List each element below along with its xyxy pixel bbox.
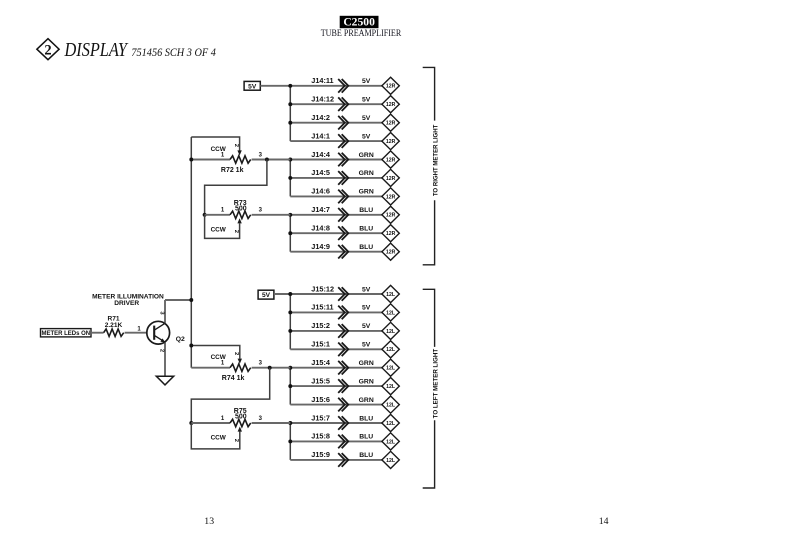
R73 wiper arrow bbox=[237, 218, 241, 223]
potentiometer R72 bbox=[230, 156, 251, 163]
off-page flag 12L (J15:6) bbox=[382, 396, 399, 413]
svg-text:J15:7: J15:7 bbox=[311, 413, 330, 422]
svg-text:GRN: GRN bbox=[359, 397, 374, 404]
svg-text:GRN: GRN bbox=[359, 170, 374, 177]
off-page flag 12L (J15:12) bbox=[382, 285, 399, 302]
svg-text:14: 14 bbox=[599, 516, 609, 527]
wire row J14:9 bbox=[290, 251, 382, 253]
svg-text:J14:12: J14:12 bbox=[311, 95, 334, 104]
svg-text:J15:2: J15:2 bbox=[311, 321, 330, 330]
off-page flag 12L (J15:9) bbox=[382, 451, 399, 468]
svg-text:Q2: Q2 bbox=[176, 336, 185, 343]
potentiometer R73 wiper loop bbox=[205, 215, 240, 239]
off-page chevron J14:6 bbox=[338, 190, 348, 204]
R72 wiper arrow bbox=[237, 150, 241, 155]
bus J15 BLU group bbox=[289, 423, 291, 460]
svg-text:500: 500 bbox=[235, 414, 247, 421]
off-page flag 12L (J15:7) bbox=[382, 414, 399, 431]
off-page flag 12R (J14:1) bbox=[382, 133, 399, 150]
svg-text:J14:9: J14:9 bbox=[311, 242, 330, 251]
junction node J15:12 bbox=[288, 292, 292, 296]
svg-text:TO RIGHT METER LIGHT: TO RIGHT METER LIGHT bbox=[432, 125, 439, 197]
svg-text:R72 1k: R72 1k bbox=[221, 167, 244, 174]
svg-text:12R: 12R bbox=[386, 139, 396, 145]
potentiometer R72 wiper loop bbox=[191, 137, 239, 151]
bus J15 GRN group bbox=[289, 368, 291, 405]
svg-text:BLU: BLU bbox=[359, 226, 373, 233]
off-page flag 12L (J15:4) bbox=[382, 359, 399, 376]
svg-text:5V: 5V bbox=[262, 292, 271, 299]
wire row J14:5 bbox=[290, 177, 382, 179]
off-page flag 12R (J14:2) bbox=[382, 114, 399, 131]
svg-text:J14:5: J14:5 bbox=[311, 168, 330, 177]
wire row J15:12 bbox=[290, 293, 382, 295]
junction node J15:4 bbox=[288, 366, 292, 370]
svg-text:J14:2: J14:2 bbox=[311, 113, 330, 122]
wire R72 pin 3 to R73 pin 1 bbox=[205, 160, 267, 215]
resistor R71 bbox=[104, 329, 124, 336]
svg-text:12L: 12L bbox=[386, 403, 396, 409]
wire R72 pin 1 wire bbox=[191, 159, 230, 161]
off-page flag 12L (J15:11) bbox=[382, 304, 399, 321]
wire R73 pin 3 wire bbox=[252, 214, 291, 216]
wire 5V box to J14 bus bbox=[260, 85, 290, 87]
wire Q2 collector up bbox=[164, 300, 166, 323]
svg-text:J14:4: J14:4 bbox=[311, 150, 331, 159]
junction node J15:8 bbox=[288, 439, 292, 443]
svg-text:12L: 12L bbox=[386, 421, 396, 427]
wire R74 pin 3 wire bbox=[252, 367, 291, 369]
svg-text:2: 2 bbox=[233, 230, 239, 233]
svg-text:J14:7: J14:7 bbox=[311, 205, 330, 214]
ground bbox=[156, 376, 173, 385]
junction node collector / bus bbox=[189, 298, 193, 302]
R75 wiper arrow bbox=[238, 427, 242, 432]
svg-text:12L: 12L bbox=[386, 439, 396, 445]
off-page flag 12L (J15:2) bbox=[382, 322, 399, 339]
svg-text:CCW: CCW bbox=[211, 227, 227, 234]
off-page flag 12L (J15:1) bbox=[382, 341, 399, 358]
svg-text:751456 SCH 3 OF 4: 751456 SCH 3 OF 4 bbox=[131, 47, 216, 59]
junction node J14:2 bbox=[288, 121, 292, 125]
off-page chevron J14:12 bbox=[338, 97, 348, 111]
junction node J14:5 bbox=[288, 176, 292, 180]
off-page flag 12R (J14:4) bbox=[382, 151, 399, 168]
off-page flag 12R (J14:12) bbox=[382, 96, 399, 113]
wire row J14:8 bbox=[290, 232, 382, 234]
svg-text:12R: 12R bbox=[386, 231, 396, 237]
svg-text:2.21K: 2.21K bbox=[105, 322, 123, 329]
junction node R74 pin 3 / R75 feed bbox=[268, 366, 272, 370]
svg-text:12R: 12R bbox=[386, 102, 396, 108]
junction node R74 wiper / bus bbox=[189, 344, 193, 348]
svg-text:12R: 12R bbox=[386, 157, 396, 163]
wire row J14:6 bbox=[290, 195, 382, 197]
junction node J14:8 bbox=[288, 231, 292, 235]
svg-text:J15:1: J15:1 bbox=[311, 340, 330, 349]
wire row J14:4 bbox=[290, 159, 382, 161]
wire row J15:8 bbox=[290, 440, 382, 442]
svg-text:GRN: GRN bbox=[359, 152, 374, 159]
svg-text:2: 2 bbox=[44, 42, 51, 58]
off-page chevron J15:12 bbox=[338, 287, 348, 301]
power source 5V box (right group) bbox=[244, 81, 260, 90]
bus J14 GRN group bbox=[289, 160, 291, 197]
junction node R72 pin 1 / bus bbox=[189, 158, 193, 162]
junction node J15:5 bbox=[288, 384, 292, 388]
svg-text:12R: 12R bbox=[386, 194, 396, 200]
junction node J15:7 bbox=[288, 421, 292, 425]
svg-text:J15:8: J15:8 bbox=[311, 432, 330, 441]
wire left bus (collector node) bbox=[190, 137, 192, 368]
wire row J15:1 bbox=[290, 348, 382, 350]
svg-text:J15:11: J15:11 bbox=[311, 303, 333, 312]
junction node J14:11 bbox=[288, 84, 292, 88]
svg-text:TUBE PREAMPLIFIER: TUBE PREAMPLIFIER bbox=[321, 28, 402, 39]
svg-text:5V: 5V bbox=[362, 78, 371, 85]
svg-text:12R: 12R bbox=[386, 176, 396, 182]
svg-text:5V: 5V bbox=[362, 305, 371, 312]
potentiometer R74 bbox=[230, 364, 251, 371]
svg-text:METER LEDs ON: METER LEDs ON bbox=[41, 331, 90, 337]
svg-text:12L: 12L bbox=[386, 384, 396, 390]
bus J14 5V group bbox=[289, 86, 291, 141]
wire R74 pin 1 wire bbox=[191, 367, 230, 369]
potentiometer R74 wiper loop bbox=[191, 346, 240, 359]
svg-text:12L: 12L bbox=[386, 310, 396, 316]
bracket TO RIGHT METER LIGHT bbox=[423, 67, 440, 264]
svg-text:5V: 5V bbox=[362, 286, 371, 293]
label METER ILLUMINATION DRIVER bbox=[92, 293, 164, 307]
svg-text:BLU: BLU bbox=[359, 434, 373, 441]
svg-text:GRN: GRN bbox=[359, 189, 374, 196]
wire row J14:7 bbox=[290, 214, 382, 216]
wire row J14:11 bbox=[290, 85, 382, 87]
svg-text:CCW: CCW bbox=[211, 146, 227, 153]
svg-text:J14:6: J14:6 bbox=[311, 187, 330, 196]
svg-text:TO LEFT METER LIGHT: TO LEFT METER LIGHT bbox=[432, 349, 439, 419]
svg-text:J14:1: J14:1 bbox=[311, 131, 330, 140]
svg-text:12L: 12L bbox=[386, 458, 396, 464]
svg-text:13: 13 bbox=[204, 516, 214, 527]
svg-text:DISPLAY: DISPLAY bbox=[64, 40, 129, 61]
junction node J14:4 bbox=[288, 158, 292, 162]
svg-text:12R: 12R bbox=[386, 250, 396, 256]
wire R75 pin 1 wire bbox=[191, 422, 230, 424]
wire 5V box to J15 bus bbox=[274, 293, 290, 295]
off-page chevron J14:8 bbox=[338, 226, 348, 240]
off-page chevron J14:11 bbox=[338, 79, 348, 93]
svg-text:12L: 12L bbox=[386, 366, 396, 372]
off-page chevron J15:11 bbox=[338, 306, 348, 320]
off-page chevron J15:2 bbox=[338, 324, 348, 338]
svg-text:12L: 12L bbox=[386, 347, 396, 353]
svg-text:C2500: C2500 bbox=[343, 16, 375, 29]
svg-text:2: 2 bbox=[233, 439, 239, 442]
value label R75 500 bbox=[234, 408, 247, 421]
off-page chevron J14:1 bbox=[338, 134, 348, 148]
R74 wiper arrow bbox=[238, 359, 242, 364]
svg-text:BLU: BLU bbox=[359, 415, 373, 422]
svg-text:12R: 12R bbox=[386, 213, 396, 219]
off-page flag 12R (J14:6) bbox=[382, 188, 399, 205]
wire row J15:2 bbox=[290, 330, 382, 332]
wire R74 pin 3 to R75 pin 1 bbox=[191, 368, 269, 423]
junction node J15:2 bbox=[288, 329, 292, 333]
off-page chevron J15:6 bbox=[338, 398, 348, 412]
off-page flag 12L (J15:5) bbox=[382, 378, 399, 395]
junction node R75 pin 1 bbox=[189, 421, 193, 425]
svg-text:2: 2 bbox=[233, 144, 239, 147]
sheet marker diamond 2 bbox=[37, 39, 59, 60]
off-page chevron J15:8 bbox=[338, 435, 348, 449]
svg-text:J15:5: J15:5 bbox=[311, 376, 330, 385]
wire R72 pin 3 wire bbox=[252, 159, 291, 161]
wire row J14:2 bbox=[290, 122, 382, 124]
off-page chevron J15:4 bbox=[338, 361, 348, 375]
off-page chevron J15:1 bbox=[338, 343, 348, 357]
svg-text:500: 500 bbox=[235, 206, 247, 213]
value label R71 2.21K bbox=[105, 315, 123, 329]
off-page chevron J14:5 bbox=[338, 171, 348, 185]
svg-text:BLU: BLU bbox=[359, 207, 373, 214]
title box C2500 bbox=[340, 16, 379, 29]
off-page chevron J14:4 bbox=[338, 153, 348, 167]
junction node J14:7 bbox=[288, 213, 292, 217]
junction node J15:11 bbox=[288, 310, 292, 314]
power source 5V box (left group) bbox=[258, 290, 274, 299]
svg-text:J15:6: J15:6 bbox=[311, 395, 330, 404]
svg-text:2: 2 bbox=[159, 349, 165, 352]
potentiometer R73 bbox=[230, 211, 251, 218]
wire row J14:1 bbox=[290, 140, 382, 142]
transistor Q2 bbox=[147, 321, 170, 344]
svg-text:CCW: CCW bbox=[211, 435, 227, 442]
wire R75 pin 3 wire bbox=[252, 422, 291, 424]
off-page flag 12R (J14:7) bbox=[382, 206, 399, 223]
bracket TO LEFT METER LIGHT bbox=[423, 289, 440, 488]
wire row J15:5 bbox=[290, 385, 382, 387]
svg-text:BLU: BLU bbox=[359, 452, 373, 459]
off-page chevron J14:9 bbox=[338, 245, 348, 259]
potentiometer R75 bbox=[230, 419, 251, 426]
junction node R73 pin 1 bbox=[203, 213, 207, 217]
junction node J14:12 bbox=[288, 102, 292, 106]
svg-text:12R: 12R bbox=[386, 121, 396, 127]
svg-text:5V: 5V bbox=[362, 342, 371, 349]
wire METER LEDs ON to R71 bbox=[91, 332, 104, 334]
svg-text:J15:9: J15:9 bbox=[311, 450, 330, 459]
svg-text:12L: 12L bbox=[386, 292, 396, 298]
off-page chevron J15:9 bbox=[338, 453, 348, 467]
svg-text:J14:11: J14:11 bbox=[311, 76, 333, 85]
off-page flag 12R (J14:9) bbox=[382, 243, 399, 260]
wire collector to bus bbox=[165, 299, 191, 301]
svg-text:BLU: BLU bbox=[359, 244, 373, 251]
off-page flag 12L (J15:8) bbox=[382, 433, 399, 450]
junction node R72 pin 3 / R73 feed bbox=[265, 158, 269, 162]
svg-text:5V: 5V bbox=[362, 115, 371, 122]
svg-text:12R: 12R bbox=[386, 84, 396, 90]
bus J14 BLU group bbox=[289, 215, 291, 252]
wire row J15:6 bbox=[290, 404, 382, 406]
potentiometer R75 wiper loop bbox=[191, 423, 240, 449]
off-page chevron J14:7 bbox=[338, 208, 348, 222]
wire R73 pin 1 wire bbox=[205, 214, 230, 216]
off-page flag 12R (J14:11) bbox=[382, 77, 399, 94]
value label R73 500 bbox=[234, 200, 247, 213]
wire R71 to Q2 base bbox=[125, 332, 147, 334]
wire row J15:4 bbox=[290, 367, 382, 369]
svg-text:J14:8: J14:8 bbox=[311, 224, 330, 233]
wire row J15:7 bbox=[290, 422, 382, 424]
off-page flag 12R (J14:8) bbox=[382, 225, 399, 242]
svg-text:5V: 5V bbox=[248, 83, 257, 90]
wire row J15:9 bbox=[290, 459, 382, 461]
svg-text:J15:4: J15:4 bbox=[311, 358, 331, 367]
svg-text:2: 2 bbox=[233, 352, 239, 355]
bus J15 5V group bbox=[289, 294, 291, 349]
wire Q2 emitter down bbox=[164, 342, 166, 376]
off-page flag 12R (J14:5) bbox=[382, 169, 399, 186]
svg-text:12L: 12L bbox=[386, 329, 396, 335]
svg-text:CCW: CCW bbox=[211, 354, 227, 361]
wire row J15:11 bbox=[290, 311, 382, 313]
svg-text:GRN: GRN bbox=[359, 378, 374, 385]
net flag METER LEDs ON bbox=[41, 329, 92, 338]
wire row J14:12 bbox=[290, 103, 382, 105]
off-page chevron J15:7 bbox=[338, 416, 348, 430]
svg-text:J15:12: J15:12 bbox=[311, 284, 334, 293]
svg-text:5V: 5V bbox=[362, 97, 371, 104]
off-page chevron J15:5 bbox=[338, 379, 348, 393]
off-page chevron J14:2 bbox=[338, 116, 348, 130]
svg-text:GRN: GRN bbox=[359, 360, 374, 367]
svg-text:DRIVER: DRIVER bbox=[114, 300, 139, 307]
svg-text:R74 1k: R74 1k bbox=[222, 375, 245, 382]
svg-text:5V: 5V bbox=[362, 323, 371, 330]
svg-text:5V: 5V bbox=[362, 133, 371, 140]
